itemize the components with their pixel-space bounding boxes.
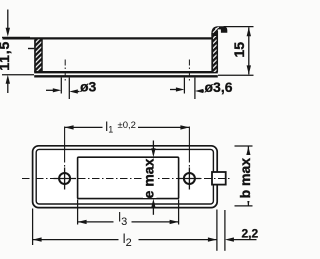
section view left lip tick	[28, 48, 35, 50]
dimension l2	[33, 231, 217, 250]
dimension l2 extension lines	[33, 209, 217, 251]
vertical centerline right hole (plan)	[188, 127, 190, 167]
dimension b max extension lines	[235, 146, 253, 206]
right hole crosshair	[179, 168, 201, 190]
centerline right hole (section)	[188, 60, 190, 83]
svg-text:ø3: ø3	[80, 79, 97, 95]
section view left wall (hatched)	[34, 39, 42, 72]
horizontal centerline	[22, 178, 231, 180]
dimension l3 extension lines	[78, 200, 179, 225]
left hole crosshair	[54, 168, 77, 190]
dimension 2,2 extension line	[224, 210, 226, 251]
dimension 11,5	[0, 10, 12, 94]
dimension 15	[231, 27, 251, 74]
dimension e max	[141, 141, 157, 215]
dimension 2,2	[225, 227, 259, 242]
svg-text:15: 15	[231, 42, 247, 58]
plan view left hole	[59, 173, 70, 184]
plan view outer body	[33, 146, 218, 208]
plan view right latch tab	[212, 172, 226, 185]
section view bottom plate	[34, 72, 218, 76]
vertical centerline left hole (plan)	[64, 127, 66, 167]
dimension 11,5 extension lines	[2, 37, 34, 74]
svg-text:11,5: 11,5	[0, 41, 12, 71]
svg-text:ø3,6: ø3,6	[205, 79, 233, 95]
dimension phi3,6 extension lines	[184, 78, 195, 99]
dimension phi3	[46, 79, 97, 95]
section view right wall top hook	[211, 26, 227, 36]
plan view opening rectangle	[78, 157, 179, 198]
dimension l1 +-0,2	[65, 118, 190, 135]
svg-text:e max: e max	[141, 158, 157, 198]
dimension phi3 extension lines	[61, 78, 69, 99]
svg-text:2,2: 2,2	[242, 227, 259, 241]
section view right wall (hatched)	[212, 31, 218, 72]
svg-text:b max: b max	[237, 158, 253, 199]
dimension 15 extension lines	[218, 27, 254, 76]
plan view right hole	[184, 173, 195, 184]
dimension phi3,6	[170, 79, 233, 95]
centerline left hole (section)	[64, 60, 66, 83]
dimension l3	[78, 211, 179, 228]
dimension b max	[237, 147, 253, 206]
section view top plate	[3, 37, 212, 39]
